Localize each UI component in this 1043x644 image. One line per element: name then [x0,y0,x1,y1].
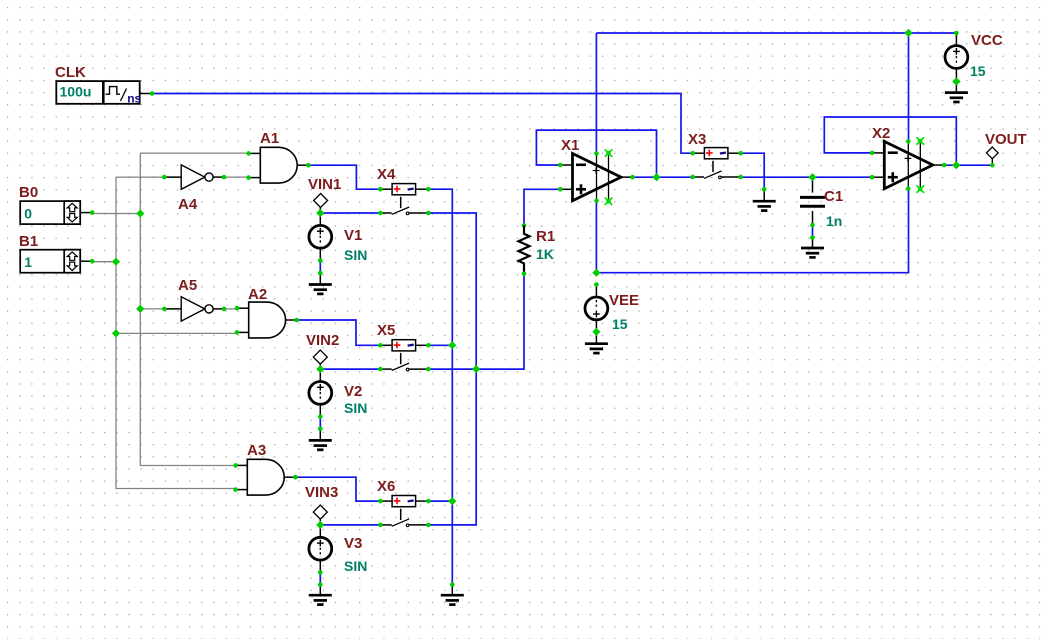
svg-text:B1: B1 [19,233,38,250]
wire bus B1 top to A4 input [116,176,164,178]
junction VIN1 [316,209,324,217]
wire A2 input B from bus [116,332,237,334]
pin diamond VIN3 [313,505,327,519]
svg-text:C1: C1 [824,188,843,205]
svg-text:VOUT: VOUT [985,131,1027,148]
wire C1 to ground node [812,225,814,238]
wire X3 throw to X2 non-inverting input [741,176,873,178]
switch X6 control box [380,496,428,507]
voltage source V3 [309,537,332,560]
svg-text:1K: 1K [536,246,554,262]
svg-text:VEE: VEE [609,292,639,309]
node A2 input A [235,306,240,311]
node X1 output [630,175,635,180]
svg-text:ns: ns [127,91,141,105]
node A5 output [222,307,227,312]
node V2 ground pin [318,427,323,432]
node X3 control left [690,151,695,156]
junction VIN2 [316,365,324,373]
inverter A5 [164,297,224,321]
switch X3 contact [693,161,741,179]
node A1 input B [246,175,251,180]
node X3 throw [738,175,743,180]
node X4 pole [378,211,383,216]
node V2 bottom [318,414,323,419]
wire V3 bottom pin [319,560,321,572]
voltage source VEE [585,297,608,320]
svg-text:VIN2: VIN2 [306,332,339,349]
wire A5 input from bus [140,308,164,310]
switch X5 control box [380,340,428,351]
ground V1 [309,273,332,294]
wire A4 output to A1 input B [224,176,249,178]
inverter A4 [164,165,224,189]
svg-text:X3: X3 [688,131,706,148]
node X6 control left [378,499,383,504]
junction B1 wire [112,258,120,266]
node R1 top [522,223,527,228]
node X4 throw [426,211,431,216]
junction B0 wire [136,209,144,217]
wire A3 output to X6 control [295,477,380,501]
pin diamond VOUT [987,147,999,159]
node X4 control right [426,187,431,192]
wire VCC to ground [955,68,957,81]
node V1 ground pin [318,271,323,276]
node B0 output [90,210,95,215]
node X6 control right [426,499,431,504]
svg-text:VCC: VCC [971,32,1003,49]
ground VEE [585,332,608,353]
svg-text:15: 15 [612,316,628,332]
wire V1 bottom pin [319,248,321,260]
svg-text:A3: A3 [247,442,266,459]
wire bus B1 vertical [116,177,236,488]
junction VIN3 [316,521,324,529]
svg-text:X2: X2 [872,125,890,142]
wire VIN3 to X6 pole [320,524,380,526]
node X1 non-inverting input [558,187,563,192]
wire A5 output to A2 input A [224,308,237,310]
X2 unused pin marker bottom [917,185,925,193]
node V1 bottom [318,258,323,263]
svg-text:V1: V1 [344,227,362,244]
clock source CLK [56,81,152,105]
wire X2 feedback [824,117,956,165]
X1 unused pin marker top [605,149,613,157]
node X5 throw [426,367,431,372]
node X1 inverting input [558,163,563,168]
node X2 inverting input [870,151,875,156]
wire X1 output to X3 pole [633,176,693,178]
wire B1 output [92,261,116,263]
node X2 V- supply pin [906,186,911,191]
svg-text:A2: A2 [248,286,267,303]
node VOUT [990,163,995,168]
wire VOUT pin stub [991,159,993,166]
svg-text:A4: A4 [178,196,198,213]
node X1 V- supply pin [594,199,599,204]
node A1 output [306,163,311,168]
node X1 V+ supply pin [594,151,599,156]
node A4 output [222,175,227,180]
voltage source V2 [309,382,332,405]
node V3 ground pin [318,582,323,587]
node A2 output [294,318,299,323]
AND gate A3 [236,459,296,495]
node X2 non-inverting input [870,175,875,180]
svg-text:X1: X1 [561,137,579,154]
node C1 ground pin [810,235,815,240]
junction C1 top [808,173,816,181]
node VCC top [954,31,959,36]
switch X6 contact [380,509,428,527]
node A1 input A [246,151,251,156]
wire VEE leg [595,285,597,298]
switch X3 control box [693,148,741,159]
AND gate A2 [237,302,297,338]
wire V1 to ground node [319,261,321,273]
wire X5 control to chain [428,344,452,346]
wire VIN2 source leg [319,363,321,382]
svg-text:CLK: CLK [55,64,86,81]
node C1 bottom [810,223,815,228]
node X4 control left [378,187,383,192]
svg-text:V2: V2 [344,383,362,400]
digital source B0 [20,201,92,224]
op-amp X2 body [872,141,944,188]
switch X4 contact [380,197,428,215]
svg-text:X6: X6 [377,478,395,495]
wire X6 control to chain [428,500,452,502]
switch X4 control box [380,184,428,195]
junction A2 input B [112,329,120,337]
wire X6 throw to mix bus [428,369,476,525]
node X2 output [942,163,947,168]
svg-text:0: 0 [24,206,32,222]
node R1 bottom [522,272,527,277]
svg-text:X5: X5 [377,322,395,339]
svg-text:VIN1: VIN1 [308,176,341,193]
node A3 output [293,475,298,480]
ground VCC [945,82,968,103]
svg-text:V3: V3 [344,535,362,552]
AND gate A1 [249,147,309,183]
wire CLK to X3 control [152,94,693,154]
ground X3 control [753,189,776,210]
ground V3 [309,585,332,605]
junction X2 output [952,161,960,169]
digital source B1 [20,250,92,273]
node VEE top pin [594,282,599,287]
ground C1 [801,238,824,258]
ground V2 [309,429,332,450]
svg-text:SIN: SIN [344,400,367,416]
node X6 pole [378,523,383,528]
wire A1 output to X4 control [308,165,380,189]
svg-text:SIN: SIN [344,247,367,263]
wire VCC rail to X1 V+ [595,33,597,154]
node X2 V+ supply pin [906,139,911,144]
junction A5 input [136,305,144,313]
node X5 control left [378,343,383,348]
resistor R1 [519,225,530,273]
svg-text:R1: R1 [536,228,555,245]
node A3 input B [233,487,238,492]
node X3 control right [738,151,743,156]
junction VCC rail [904,29,912,37]
wire V2 to ground node [319,417,321,429]
node A3 input A [233,463,238,468]
pin diamond VIN2 [313,350,327,364]
wire X3 control to ground [741,153,765,189]
wire bus B0 top to A1 input A [140,152,248,154]
wire C1 top pin [812,177,814,192]
wire C1 bottom pin [812,211,814,225]
svg-text:15: 15 [970,63,986,79]
wire VIN1 to X4 pole [320,212,380,214]
wire X5 throw to R1 [428,274,524,369]
wire X1 feedback [536,130,656,177]
junction VEE rail [592,269,600,277]
wire B0 output [92,213,140,215]
X2 unused pin marker top [917,137,925,145]
wire VIN2 to X5 pole [320,368,380,370]
node X3 pole [690,175,695,180]
node A5 input [162,307,167,312]
voltage source V1 [309,225,332,248]
wire X4 throw to mix bus [428,213,476,369]
switch X5 contact [380,353,428,371]
capacitor C1 [800,197,825,206]
wire X1 V- to VEE node [595,201,597,273]
node X5 control right [426,343,431,348]
wire A2 output to X5 control [297,320,381,345]
voltage source VCC [945,46,968,69]
X1 unused pin marker bottom [605,197,613,205]
op-amp X1 body [560,154,632,201]
svg-text:100u: 100u [60,84,92,100]
svg-text:B0: B0 [19,184,38,201]
wire V2 bottom pin [319,404,321,416]
wire VCC leg [955,33,957,46]
node X6 throw [426,523,431,528]
svg-text:A1: A1 [260,130,279,147]
wire VIN1 source leg [319,207,321,226]
junction X1 output [652,173,660,181]
svg-text:X4: X4 [377,166,396,183]
wire V3 to ground node [319,573,321,585]
wire VEE rail [596,189,908,273]
wire bus B0 vertical [140,153,236,465]
node VCC ground pin [952,77,960,85]
wire VIN3 source leg [319,518,321,537]
wire R1 to X1 non-inverting input [524,189,560,225]
node X5 pole [378,367,383,372]
junction X5 control chain [448,341,456,349]
ground control chain [441,585,464,605]
node A4 input [162,175,167,180]
wire VEE to ground [595,320,597,332]
junction mix bus [472,365,480,373]
wire VCC rail to X2 V+ [908,33,910,141]
node V3 bottom [318,570,323,575]
svg-text:SIN: SIN [344,558,367,574]
wire VCC rail [596,32,956,34]
pin diamond VIN1 [314,194,328,208]
svg-text:A5: A5 [178,277,197,294]
node CLK output [150,91,155,96]
wire X4 control chain down [428,189,452,584]
svg-text:1n: 1n [826,213,842,229]
junction X6 control chain [448,497,456,505]
svg-text:1: 1 [24,254,32,270]
node A2 input B [235,330,240,335]
svg-text:VIN3: VIN3 [305,484,338,501]
wire X2 output to VOUT [945,164,993,166]
node B1 output [90,259,95,264]
